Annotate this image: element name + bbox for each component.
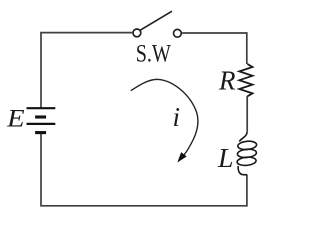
inductor L coil loop 2 [237, 148, 257, 158]
current arrow head [178, 153, 186, 161]
battery E short plate 1 [35, 115, 46, 118]
svg-text:L: L [217, 143, 234, 173]
inductor L coil loop 1 [237, 140, 256, 150]
wire top-right segment [182, 33, 247, 64]
svg-text:i: i [173, 102, 181, 132]
resistor R zigzag [239, 64, 252, 96]
inductor L coil loop 3 [237, 156, 257, 166]
switch right terminal [174, 29, 182, 37]
svg-text:E: E [6, 106, 25, 133]
switch S.W left terminal [133, 29, 141, 37]
wire top-left segment [41, 33, 132, 108]
current arc i [131, 79, 198, 155]
inductor L bottom lead [238, 166, 247, 175]
switch arm [140, 11, 172, 30]
wire between resistor and inductor [246, 96, 248, 132]
wire left lower segment [41, 133, 247, 206]
svg-text:R: R [218, 66, 236, 96]
svg-text:S.W: S.W [136, 41, 172, 68]
battery E short plate 2 [35, 131, 46, 134]
battery E long plate 1 [27, 107, 56, 109]
inductor L top lead [239, 132, 247, 142]
battery E long plate 2 [27, 123, 56, 125]
